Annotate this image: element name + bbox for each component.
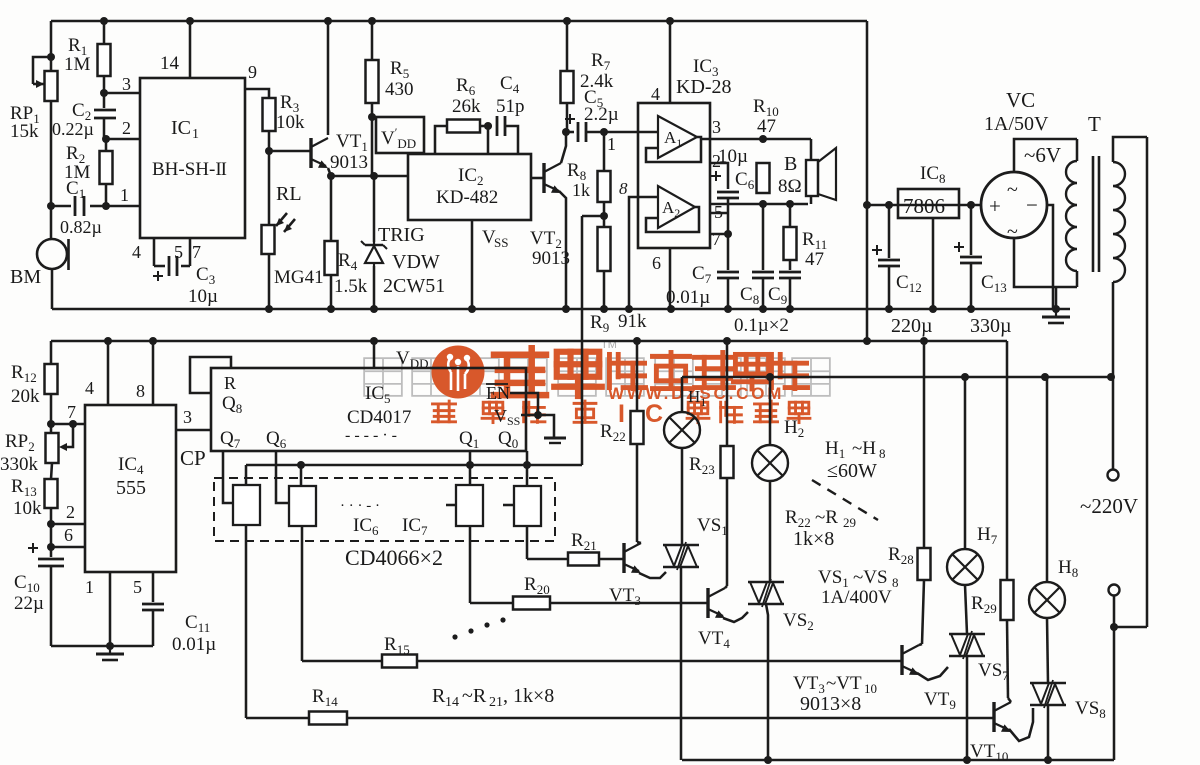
svg-text:IC7: IC7	[402, 515, 428, 538]
svg-text:A2: A2	[662, 198, 680, 220]
wire: +6V drop from regulator (x=867)	[866, 21, 869, 205]
svg-text:6: 6	[64, 525, 73, 545]
svg-text:Q6: Q6	[266, 428, 287, 451]
microphone BM	[37, 239, 67, 269]
svg-text:7: 7	[712, 229, 721, 249]
resistor R12 20k	[50, 341, 53, 364]
svg-text:7806: 7806	[903, 194, 945, 218]
svg-text:R28: R28	[888, 544, 914, 567]
capacitor C7 0.01u	[727, 234, 730, 270]
wire: EN/VSS to ground	[510, 393, 538, 415]
svg-text:VS7: VS7	[978, 660, 1009, 683]
transistor VT2 9013	[531, 177, 544, 180]
svg-text:1: 1	[192, 127, 199, 142]
node: IC3 pin1 node	[600, 128, 608, 136]
op-amp A2	[658, 186, 695, 228]
svg-text:Q7: Q7	[220, 428, 241, 451]
potentiometer RP2 330k	[50, 424, 53, 433]
svg-text:B: B	[784, 153, 797, 175]
transformer T primary	[1076, 139, 1079, 161]
svg-text:R22: R22	[785, 507, 811, 530]
svg-text:RP2: RP2	[5, 431, 35, 454]
svg-text:VT3: VT3	[609, 585, 641, 608]
svg-text:C3: C3	[196, 264, 215, 287]
wire: Q7 to switch1 control	[223, 451, 233, 503]
svg-text:VS2: VS2	[783, 610, 814, 633]
capacitor C9	[789, 260, 792, 270]
analog switch S3	[456, 485, 483, 526]
svg-text:4: 4	[132, 242, 141, 262]
svg-text:VC: VC	[1006, 88, 1035, 112]
svg-text:2CW51: 2CW51	[383, 275, 445, 297]
svg-text:3: 3	[122, 74, 131, 94]
ground: mains supply ground	[1055, 287, 1058, 309]
wire: A1 output pin 3	[701, 138, 763, 141]
svg-text:10k: 10k	[276, 112, 305, 133]
capacitor C4 51p	[488, 125, 492, 128]
IC U3 KD-28	[638, 103, 710, 248]
capacitor C10 22u	[50, 547, 53, 557]
svg-text:C10: C10	[14, 572, 40, 595]
svg-text:4: 4	[651, 84, 660, 104]
svg-text:IC8: IC8	[920, 163, 946, 186]
svg-text:, 1k×8: , 1k×8	[503, 685, 554, 707]
svg-text:KD-28: KD-28	[676, 76, 732, 98]
svg-text:VT1: VT1	[336, 131, 368, 154]
svg-text:10: 10	[864, 681, 877, 696]
svg-text:15k: 15k	[10, 121, 39, 142]
ground: CD4017 ground	[544, 437, 566, 440]
svg-text:H2: H2	[784, 417, 804, 440]
analog switch S4	[514, 486, 541, 526]
svg-text:+: +	[989, 194, 1001, 218]
svg-text:R: R	[224, 373, 236, 393]
svg-text:555: 555	[116, 477, 146, 499]
svg-text:220µ: 220µ	[891, 315, 933, 337]
svg-text:9013×8: 9013×8	[800, 693, 861, 715]
svg-text:0.01µ: 0.01µ	[172, 634, 216, 655]
svg-text:IC: IC	[171, 117, 191, 139]
svg-text:0.1µ×2: 0.1µ×2	[734, 315, 789, 336]
svg-text:8: 8	[136, 381, 145, 401]
svg-text:T: T	[1088, 112, 1101, 136]
potentiometer RP1	[45, 71, 58, 101]
svg-text:~220V: ~220V	[1080, 494, 1138, 518]
transistor VT9 9013	[900, 645, 903, 675]
capacitor C13 330u	[970, 205, 973, 255]
capacitor C6 10u	[710, 163, 728, 189]
capacitor C12 220u	[888, 205, 891, 258]
svg-text:22µ: 22µ	[14, 593, 44, 614]
resistor R1	[103, 21, 106, 93]
label box VDD'	[376, 117, 424, 153]
svg-text:R9: R9	[590, 312, 609, 335]
wire: top +6V rail	[51, 20, 867, 23]
svg-text:1M: 1M	[64, 54, 91, 75]
terminal: mains lower	[1109, 585, 1120, 596]
svg-text:Q1: Q1	[459, 428, 479, 451]
svg-text:CD4017: CD4017	[347, 407, 411, 428]
svg-text:CP: CP	[180, 446, 206, 470]
IC U4 555 timer	[85, 405, 176, 572]
svg-text:5: 5	[133, 577, 142, 597]
svg-text:IC2: IC2	[458, 165, 484, 188]
svg-text:3: 3	[712, 117, 721, 137]
triac VS1	[663, 544, 699, 547]
svg-text:14: 14	[160, 53, 180, 74]
svg-text:≤60W: ≤60W	[827, 460, 877, 482]
resistor R29 1k	[1006, 341, 1009, 580]
wire: Q0 stub	[526, 451, 529, 465]
svg-text:EN: EN	[486, 383, 510, 403]
svg-text:C: C	[645, 400, 663, 428]
svg-text:1: 1	[120, 185, 129, 205]
svg-text:8: 8	[892, 575, 899, 590]
resistor R11 47	[789, 204, 792, 227]
svg-text:C13: C13	[981, 272, 1007, 295]
transistor VT3 9013	[622, 543, 625, 573]
svg-text:2.2µ: 2.2µ	[584, 104, 619, 125]
IC U6/U7 CD4066 dashed box	[214, 478, 555, 541]
svg-text:- - - - · -: - - - - · -	[345, 427, 397, 444]
resistor R21 1k	[527, 558, 624, 561]
terminal: mains upper	[1112, 377, 1115, 469]
resistor R8 1k	[603, 132, 606, 216]
svg-text:1k: 1k	[572, 180, 590, 200]
resistor R28 1k	[923, 341, 926, 548]
analog switch S2	[289, 486, 316, 526]
wire: pin5 stub	[710, 212, 728, 215]
svg-text:2: 2	[122, 118, 131, 138]
IC U2 KD-482	[408, 154, 531, 220]
svg-text:IC5: IC5	[365, 383, 391, 406]
svg-text:1k×8: 1k×8	[793, 528, 834, 550]
svg-text:VS8: VS8	[1075, 698, 1106, 721]
svg-text:C6: C6	[735, 169, 755, 192]
IC U1 BH-SH-II	[140, 78, 245, 238]
svg-text:R13: R13	[11, 476, 37, 499]
wire: IC1 pin 14	[189, 21, 192, 78]
svg-text:BM: BM	[10, 266, 41, 288]
svg-text:H8: H8	[1058, 557, 1078, 580]
wire: A2 output line	[710, 203, 808, 206]
svg-text:14: 14	[445, 695, 459, 710]
svg-text:9013: 9013	[330, 152, 368, 173]
node: pin7 node	[724, 230, 732, 238]
capacitor C5 2.2u	[566, 131, 574, 134]
svg-text:TRIG: TRIG	[378, 224, 425, 246]
svg-text:26k: 26k	[452, 96, 481, 117]
watermark: dzsc.com logo and text	[364, 358, 402, 396]
wire: IC1 pin 2	[106, 138, 140, 141]
resistor R5 430	[371, 21, 374, 117]
ellipsis dots between channels	[452, 634, 457, 639]
svg-text:8: 8	[879, 446, 886, 461]
transistor VT10 9013	[992, 702, 995, 732]
wire: IC1 pin 1	[106, 205, 140, 208]
node: VT1 emitter node	[327, 172, 335, 180]
resistor R13 10k	[45, 479, 58, 508]
triac VS7	[949, 633, 985, 636]
svg-text:C7: C7	[692, 263, 712, 286]
capacitor C1	[51, 205, 71, 208]
svg-text:VT10: VT10	[970, 741, 1008, 764]
svg-text:~6V: ~6V	[1024, 143, 1061, 167]
svg-text:V′DD: V′DD	[381, 125, 416, 151]
lamp H2	[769, 377, 772, 445]
svg-text:8Ω: 8Ω	[778, 176, 802, 197]
svg-text:RL: RL	[276, 183, 302, 205]
transformer T secondary	[1113, 137, 1147, 162]
svg-text:1.5k: 1.5k	[334, 276, 368, 297]
wire: Q1 stub	[469, 451, 472, 465]
wire: audio bus to switches	[246, 464, 582, 467]
wire: left input column	[50, 21, 53, 239]
lamp H7	[964, 377, 967, 549]
transformer T core	[1092, 156, 1095, 272]
wire: IC4 pin3 to CP	[176, 429, 211, 432]
resistor R3	[263, 98, 276, 131]
resistor R6 26k	[435, 126, 447, 154]
svg-text:0.22µ: 0.22µ	[52, 119, 94, 139]
capacitor C8	[762, 204, 765, 270]
svg-text:CD4066×2: CD4066×2	[345, 545, 443, 570]
node: pin7 junction	[47, 420, 55, 428]
svg-text:C8: C8	[740, 284, 759, 307]
node: R3/RL/base junction	[265, 147, 273, 155]
svg-text:C12: C12	[896, 272, 922, 295]
svg-text:10k: 10k	[13, 498, 42, 519]
node: pin2 junction	[47, 520, 55, 528]
wire: IC1 pin 3	[104, 92, 140, 95]
svg-text:R15: R15	[384, 634, 410, 657]
svg-text:7: 7	[192, 242, 201, 262]
triac VS8	[1030, 682, 1066, 685]
svg-text:Q0: Q0	[498, 428, 518, 451]
svg-text:R4: R4	[338, 250, 358, 273]
svg-text:VDD: VDD	[396, 348, 429, 371]
svg-text:BH-SH-II: BH-SH-II	[152, 159, 227, 180]
svg-text:7: 7	[67, 402, 76, 422]
resistor R2	[105, 139, 108, 206]
svg-text:KD-482: KD-482	[436, 187, 498, 208]
svg-text:4: 4	[85, 378, 94, 398]
svg-text:I: I	[618, 400, 625, 428]
svg-text:C11: C11	[185, 612, 210, 635]
wire: mains phase rail to lamps	[682, 376, 1113, 379]
svg-text:1: 1	[607, 134, 616, 154]
node: C5 input node	[562, 128, 570, 136]
wire: IC1 pin 9	[245, 89, 269, 98]
svg-text:R29: R29	[971, 593, 997, 616]
wire: VDD' feed	[371, 117, 374, 176]
lamp H1	[681, 377, 684, 412]
svg-text:9: 9	[248, 62, 257, 82]
svg-text:R23: R23	[689, 454, 715, 477]
photoresistor RL MG41	[268, 151, 271, 309]
wire: bridge bottom	[1014, 238, 1077, 287]
wire: audio bus riser	[581, 216, 584, 465]
node: R8/R9 junction	[600, 212, 608, 220]
speaker B 8ohm	[806, 160, 818, 196]
svg-text:R21: R21	[571, 530, 597, 553]
svg-text:IC4: IC4	[118, 454, 144, 477]
wire: IC4 pin8	[152, 341, 155, 405]
triac VS2	[748, 581, 784, 584]
zener diode VDW 2CW51 (TRIG)	[373, 176, 376, 309]
wire: S4 output to R21 line	[526, 526, 529, 559]
svg-text:0.82µ: 0.82µ	[60, 217, 102, 237]
svg-text:~: ~	[1007, 221, 1018, 243]
svg-text:VDW: VDW	[392, 251, 440, 273]
svg-text:0.01µ: 0.01µ	[666, 287, 710, 308]
wire: S3 output to R20 line	[469, 526, 472, 603]
wire: mains live column	[1146, 137, 1149, 627]
svg-text:6: 6	[652, 253, 661, 273]
wire: +6V regulator rail	[867, 204, 981, 207]
svg-text:~VT: ~VT	[826, 673, 862, 694]
svg-text:~H: ~H	[852, 438, 876, 459]
wire: IC3 pin 8	[629, 197, 658, 309]
svg-text:1A/50V: 1A/50V	[984, 113, 1049, 135]
svg-text:R: R	[432, 685, 446, 707]
resistor R10 47	[757, 163, 770, 193]
svg-text:SS: SS	[494, 235, 508, 250]
svg-text:8: 8	[619, 179, 628, 198]
svg-text:MG41: MG41	[274, 267, 324, 288]
svg-text:~R: ~R	[815, 507, 838, 528]
svg-text:C9: C9	[768, 284, 787, 307]
capacitor C2	[103, 93, 106, 139]
resistor R9 91k	[603, 216, 606, 309]
wire: CD4017 VDD pin	[373, 341, 376, 368]
svg-text:330k: 330k	[0, 454, 39, 475]
transistor VT4 9013	[706, 588, 709, 618]
transistor VT1 9013	[309, 138, 312, 168]
wire: audio ground rail	[52, 308, 1070, 311]
svg-text:5: 5	[174, 242, 183, 262]
bridge rectifier VC 1A/50V	[981, 172, 1047, 238]
svg-text:29: 29	[843, 515, 856, 530]
resistor R14 1k	[246, 717, 994, 720]
wire: S1 output to R14 line	[245, 525, 248, 718]
wire: IC3 pin4	[669, 21, 672, 103]
wire: IC4 ground bus	[51, 645, 153, 648]
svg-text:R7: R7	[591, 50, 611, 73]
svg-text:VSS: VSS	[494, 406, 520, 428]
wire: mains bottom rail	[682, 759, 1114, 762]
resistor R23 1k	[726, 341, 729, 586]
wire: bus risers	[245, 465, 248, 485]
wire: IC4 pin4	[107, 341, 110, 405]
wire: Q6 to switch2 control	[276, 451, 289, 503]
svg-text:R20: R20	[524, 574, 550, 597]
svg-text:C4: C4	[500, 73, 520, 96]
svg-text:10µ: 10µ	[718, 146, 748, 167]
svg-text:9013: 9013	[532, 248, 570, 269]
svg-text:~: ~	[1007, 179, 1018, 201]
IC U5 CD4017	[211, 368, 526, 451]
wire: 7806 gnd	[932, 218, 935, 309]
wire: IC4 pin1	[109, 572, 112, 646]
svg-text:~VS: ~VS	[853, 567, 888, 588]
svg-text:Q8: Q8	[222, 393, 242, 416]
analog switch S1	[233, 485, 260, 525]
svg-text:IC6: IC6	[353, 515, 379, 538]
svg-text:VS1: VS1	[697, 515, 728, 538]
svg-text:−: −	[1026, 193, 1038, 217]
wire: CD4017 R loop	[190, 357, 231, 393]
svg-text:R6: R6	[456, 75, 476, 98]
svg-text:330µ: 330µ	[970, 315, 1012, 337]
svg-text:~R: ~R	[462, 685, 487, 707]
svg-text:H1: H1	[825, 438, 845, 461]
wire: bridge top to transformer	[1014, 139, 1077, 172]
svg-text:47: 47	[805, 249, 824, 270]
svg-text:H7: H7	[977, 524, 998, 547]
svg-text:20k: 20k	[11, 386, 40, 407]
svg-text:2: 2	[66, 502, 75, 522]
wire: bridge minus to ground	[1047, 205, 1053, 309]
dashed leader line	[812, 480, 878, 520]
wire: logic VDD rail	[51, 340, 1007, 343]
ground: IC4 ground	[109, 646, 111, 654]
svg-text:R5: R5	[390, 58, 409, 81]
node: pin6 junction	[47, 543, 55, 551]
capacitor C3 on pins 4-5-7	[153, 238, 156, 266]
svg-text:3: 3	[183, 407, 192, 427]
wire: IC2 Vss to ground	[471, 220, 474, 309]
svg-text:1A/400V: 1A/400V	[821, 587, 892, 608]
svg-text:91k: 91k	[618, 311, 647, 332]
svg-text:R12: R12	[11, 362, 37, 385]
resistor R7 2.4k	[566, 21, 569, 132]
resistor R15 1k	[302, 660, 902, 663]
op-amp A1	[658, 116, 697, 158]
svg-text:430: 430	[385, 79, 414, 100]
lamp H8	[1046, 377, 1049, 582]
svg-text:VT4: VT4	[698, 628, 730, 651]
IC U8 7806 regulator	[898, 189, 959, 218]
svg-text:47: 47	[757, 116, 776, 137]
svg-text:10µ: 10µ	[188, 286, 218, 307]
wire: IC3 pin6	[669, 248, 672, 309]
svg-text:1: 1	[85, 577, 94, 597]
svg-text:A1: A1	[664, 128, 682, 150]
resistor R22 1k	[636, 341, 639, 542]
svg-text:R14: R14	[312, 686, 338, 709]
wire: S2 output to R15 line	[301, 526, 304, 661]
capacitor C11 0.01u	[152, 572, 155, 602]
svg-text:51p: 51p	[496, 96, 525, 117]
resistor R20 1k	[470, 602, 708, 605]
resistor R4 1.5k	[330, 176, 333, 309]
svg-text:· · · - ·: · · · - ·	[340, 498, 380, 514]
svg-text:21: 21	[489, 695, 503, 710]
svg-text:VT9: VT9	[924, 689, 956, 712]
